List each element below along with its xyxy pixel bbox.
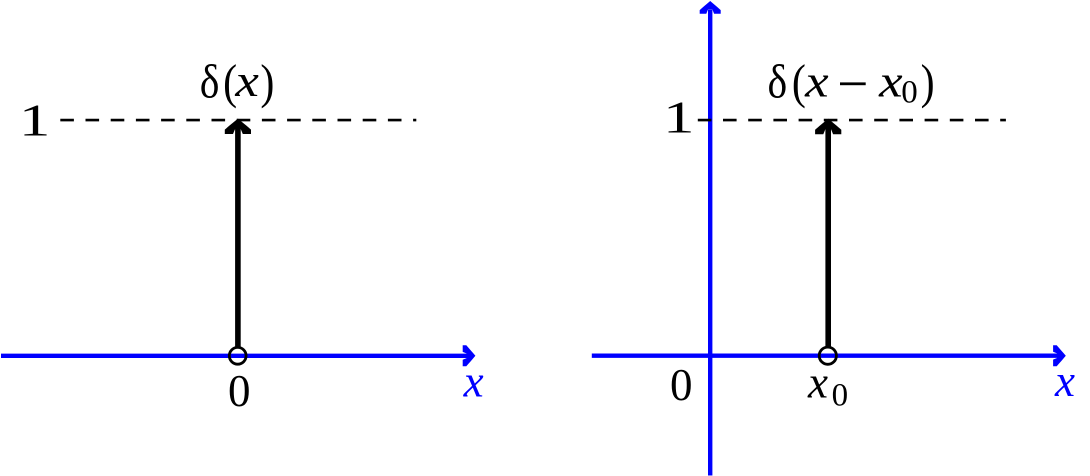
svg-text:0: 0 [228,366,251,416]
right dashed level-1 line [698,119,1006,122]
svg-text:x: x [807,358,828,408]
svg-text:x: x [234,56,259,106]
svg-text:0: 0 [670,360,693,410]
svg-text:0: 0 [832,378,849,414]
left x-axis arrowhead [463,345,476,366]
svg-text:(: ( [792,54,806,109]
right delta impulse arrowhead [815,119,841,134]
svg-text:x: x [804,57,829,107]
svg-text:x: x [878,57,903,107]
right function label delta(x - x0) [768,54,935,110]
svg-text:x: x [463,357,484,407]
svg-text:): ) [260,54,274,109]
svg-text:1: 1 [19,95,51,146]
right y-axis arrowhead [700,1,721,14]
svg-text:): ) [921,54,935,109]
svg-text:1: 1 [663,92,695,143]
left x-axis wire [1,354,468,358]
right x-axis wire [592,354,1058,358]
svg-text:x: x [1054,356,1075,406]
svg-text:δ: δ [768,56,788,109]
right delta impulse arrow shaft [825,129,831,347]
svg-text:0: 0 [901,74,918,110]
left delta impulse arrowhead [225,119,251,134]
right x-axis arrowhead [1053,345,1066,366]
right y-axis wire [708,10,712,476]
left origin node circle [229,347,246,364]
left delta impulse arrow shaft [235,129,241,347]
left dashed level-1 line [60,119,416,122]
svg-text:δ: δ [200,56,220,109]
left function label delta(x) [200,54,275,109]
right impulse node circle [819,347,836,364]
